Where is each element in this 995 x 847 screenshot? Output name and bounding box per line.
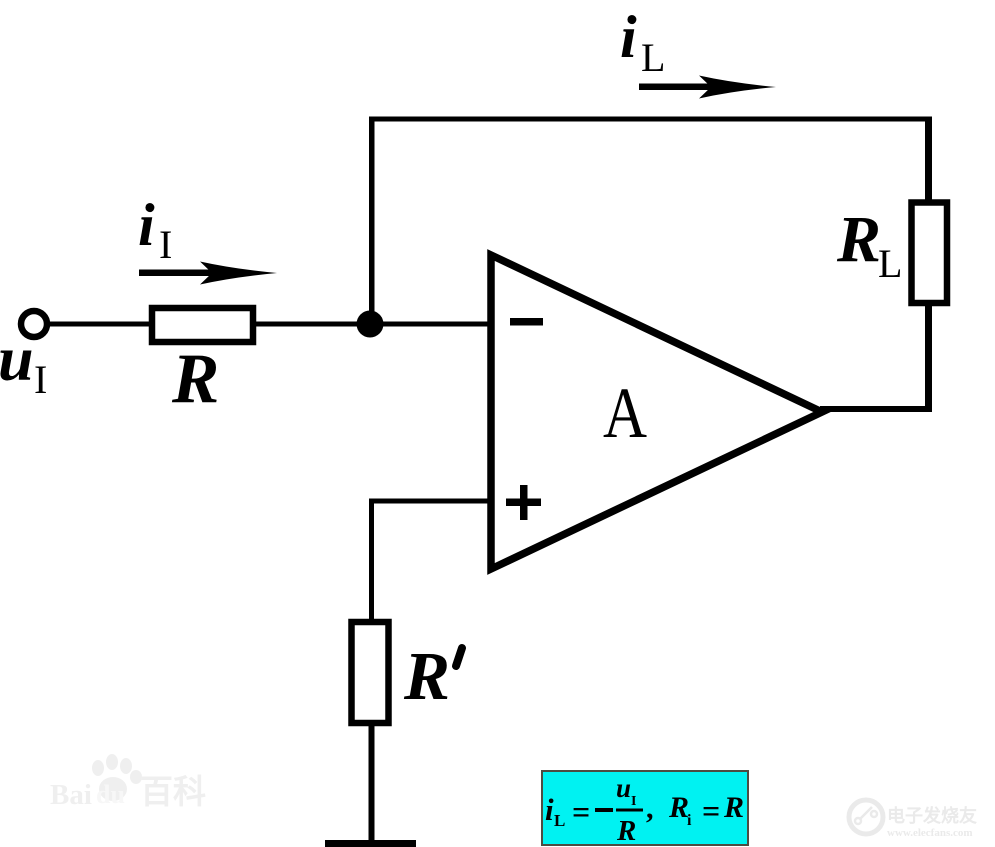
wire vertical down to R' — [369, 499, 374, 621]
resistor RL — [912, 203, 948, 304]
watermark elecfans (bottom right, faint) — [849, 800, 977, 839]
svg-text:u: u — [616, 773, 631, 803]
svg-text:R: R — [723, 791, 744, 824]
op-amp plus sign — [506, 499, 541, 507]
svg-text:=: = — [702, 793, 720, 829]
op-amp minus sign — [510, 318, 543, 326]
wire right vertical lower (RL to output) — [925, 303, 932, 412]
svg-text:i: i — [620, 4, 637, 70]
svg-text:du: du — [96, 780, 125, 809]
svg-text:R: R — [171, 340, 219, 418]
svg-text:R: R — [616, 815, 636, 847]
node junction dot — [357, 311, 384, 338]
wire right vertical upper (top wire to RL) — [925, 117, 932, 203]
svg-text:A: A — [603, 373, 647, 453]
svg-text:L: L — [878, 241, 902, 286]
wire R to op-amp inverting input — [253, 322, 491, 327]
svg-text:www.elecfans.com: www.elecfans.com — [887, 827, 973, 839]
svg-text:百科: 百科 — [140, 774, 206, 811]
wire R' to ground — [369, 723, 375, 842]
wire vertical from node up to feedback — [369, 117, 375, 327]
svg-text:=: = — [572, 794, 590, 830]
svg-text:L: L — [554, 811, 565, 830]
svg-text:I: I — [631, 794, 636, 809]
svg-text:I: I — [34, 357, 47, 402]
svg-text:Bai: Bai — [50, 779, 92, 811]
svg-text:R: R — [403, 638, 450, 714]
wire output (op-amp apex to right) — [820, 406, 932, 412]
op-amp A — [491, 255, 822, 569]
svg-text:,: , — [646, 792, 654, 825]
wire top feedback (node to right side) — [369, 117, 932, 122]
formula box — [542, 771, 748, 847]
svg-text:R: R — [668, 791, 689, 824]
resistor R — [152, 308, 253, 342]
svg-text:i: i — [545, 792, 554, 827]
wire input terminal to R — [47, 322, 152, 327]
svg-text:I: I — [159, 222, 172, 267]
current arrow iI — [139, 270, 231, 277]
svg-text:R: R — [836, 203, 881, 276]
ground — [325, 840, 416, 847]
svg-text:L: L — [641, 35, 665, 80]
svg-text:i: i — [687, 812, 692, 829]
wire op-amp noninverting input — [369, 499, 491, 504]
svg-text:u: u — [0, 323, 34, 394]
resistor R' — [352, 622, 389, 723]
svg-text:i: i — [138, 192, 155, 258]
input terminal uI — [21, 311, 47, 337]
svg-text:电子发烧友: 电子发烧友 — [887, 805, 977, 826]
watermark Baidu baike (bottom left, faint) — [50, 754, 206, 811]
current arrow iL — [639, 84, 719, 91]
